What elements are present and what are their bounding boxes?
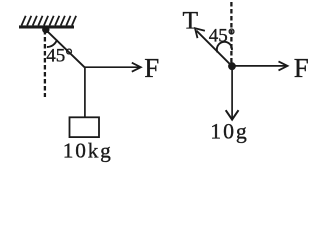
svg-text:F: F	[144, 53, 159, 83]
svg-text:10g: 10g	[210, 119, 247, 143]
svg-text:45°: 45°	[46, 46, 73, 67]
svg-text:10kg: 10kg	[63, 138, 111, 162]
svg-text:F: F	[294, 53, 309, 83]
svg-text:45°: 45°	[209, 25, 236, 46]
svg-text:T: T	[183, 6, 199, 35]
